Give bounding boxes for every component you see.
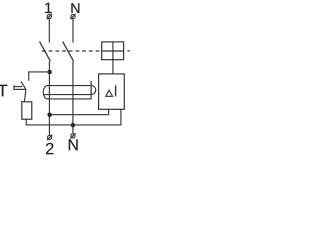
switch pole 1 blade <box>40 41 51 61</box>
relay U1 (differential relay box) <box>99 74 125 109</box>
wire: left conductor (pole 1 to terminal 2) <box>48 61 50 135</box>
wire: test button to left conductor <box>29 72 50 81</box>
terminal 1 (circle with slash) <box>47 14 52 19</box>
label T (test button) <box>0 85 7 97</box>
wire: trip box to relay box <box>112 60 114 74</box>
wire: button to resistor <box>24 90 26 102</box>
wire: right conductor (pole 2 to terminal N bottom) <box>72 61 74 133</box>
label terminal 2 <box>46 143 53 154</box>
label terminal N (top) <box>71 3 79 13</box>
terminal N bottom (circle with slash) <box>70 133 75 138</box>
CT secondary winding loop <box>91 86 96 95</box>
resistor R (test resistor) <box>22 102 32 119</box>
wire: terminal N down to pole 2 <box>72 19 74 43</box>
terminal N top (circle with slash) <box>70 14 75 19</box>
trip mechanism box (quadrant box) <box>102 42 124 60</box>
node: test wire tap on left conductor <box>47 70 51 74</box>
wire: terminal 1 down to pole 1 <box>48 19 50 43</box>
label terminal N (bottom) <box>69 139 78 150</box>
current transformer core (stadium with inner line) <box>43 86 91 99</box>
label terminal 1 <box>45 3 51 13</box>
label delta-I inside relay <box>106 85 116 96</box>
mechanical link (dashed) <box>42 50 102 52</box>
test button T contact <box>14 81 26 90</box>
wire: relay supply run to relay box <box>50 109 109 114</box>
node: relay supply tap on left conductor <box>47 113 51 117</box>
mechanical link dash right of trip box <box>127 50 130 52</box>
node: neutral tap on right conductor <box>71 123 75 127</box>
terminal 2 (circle with slash) <box>47 135 52 140</box>
CT core right bar <box>90 81 92 100</box>
switch pole 2 blade <box>63 42 74 62</box>
wire: resistor to neutral and relay (bottom run) <box>26 109 121 125</box>
